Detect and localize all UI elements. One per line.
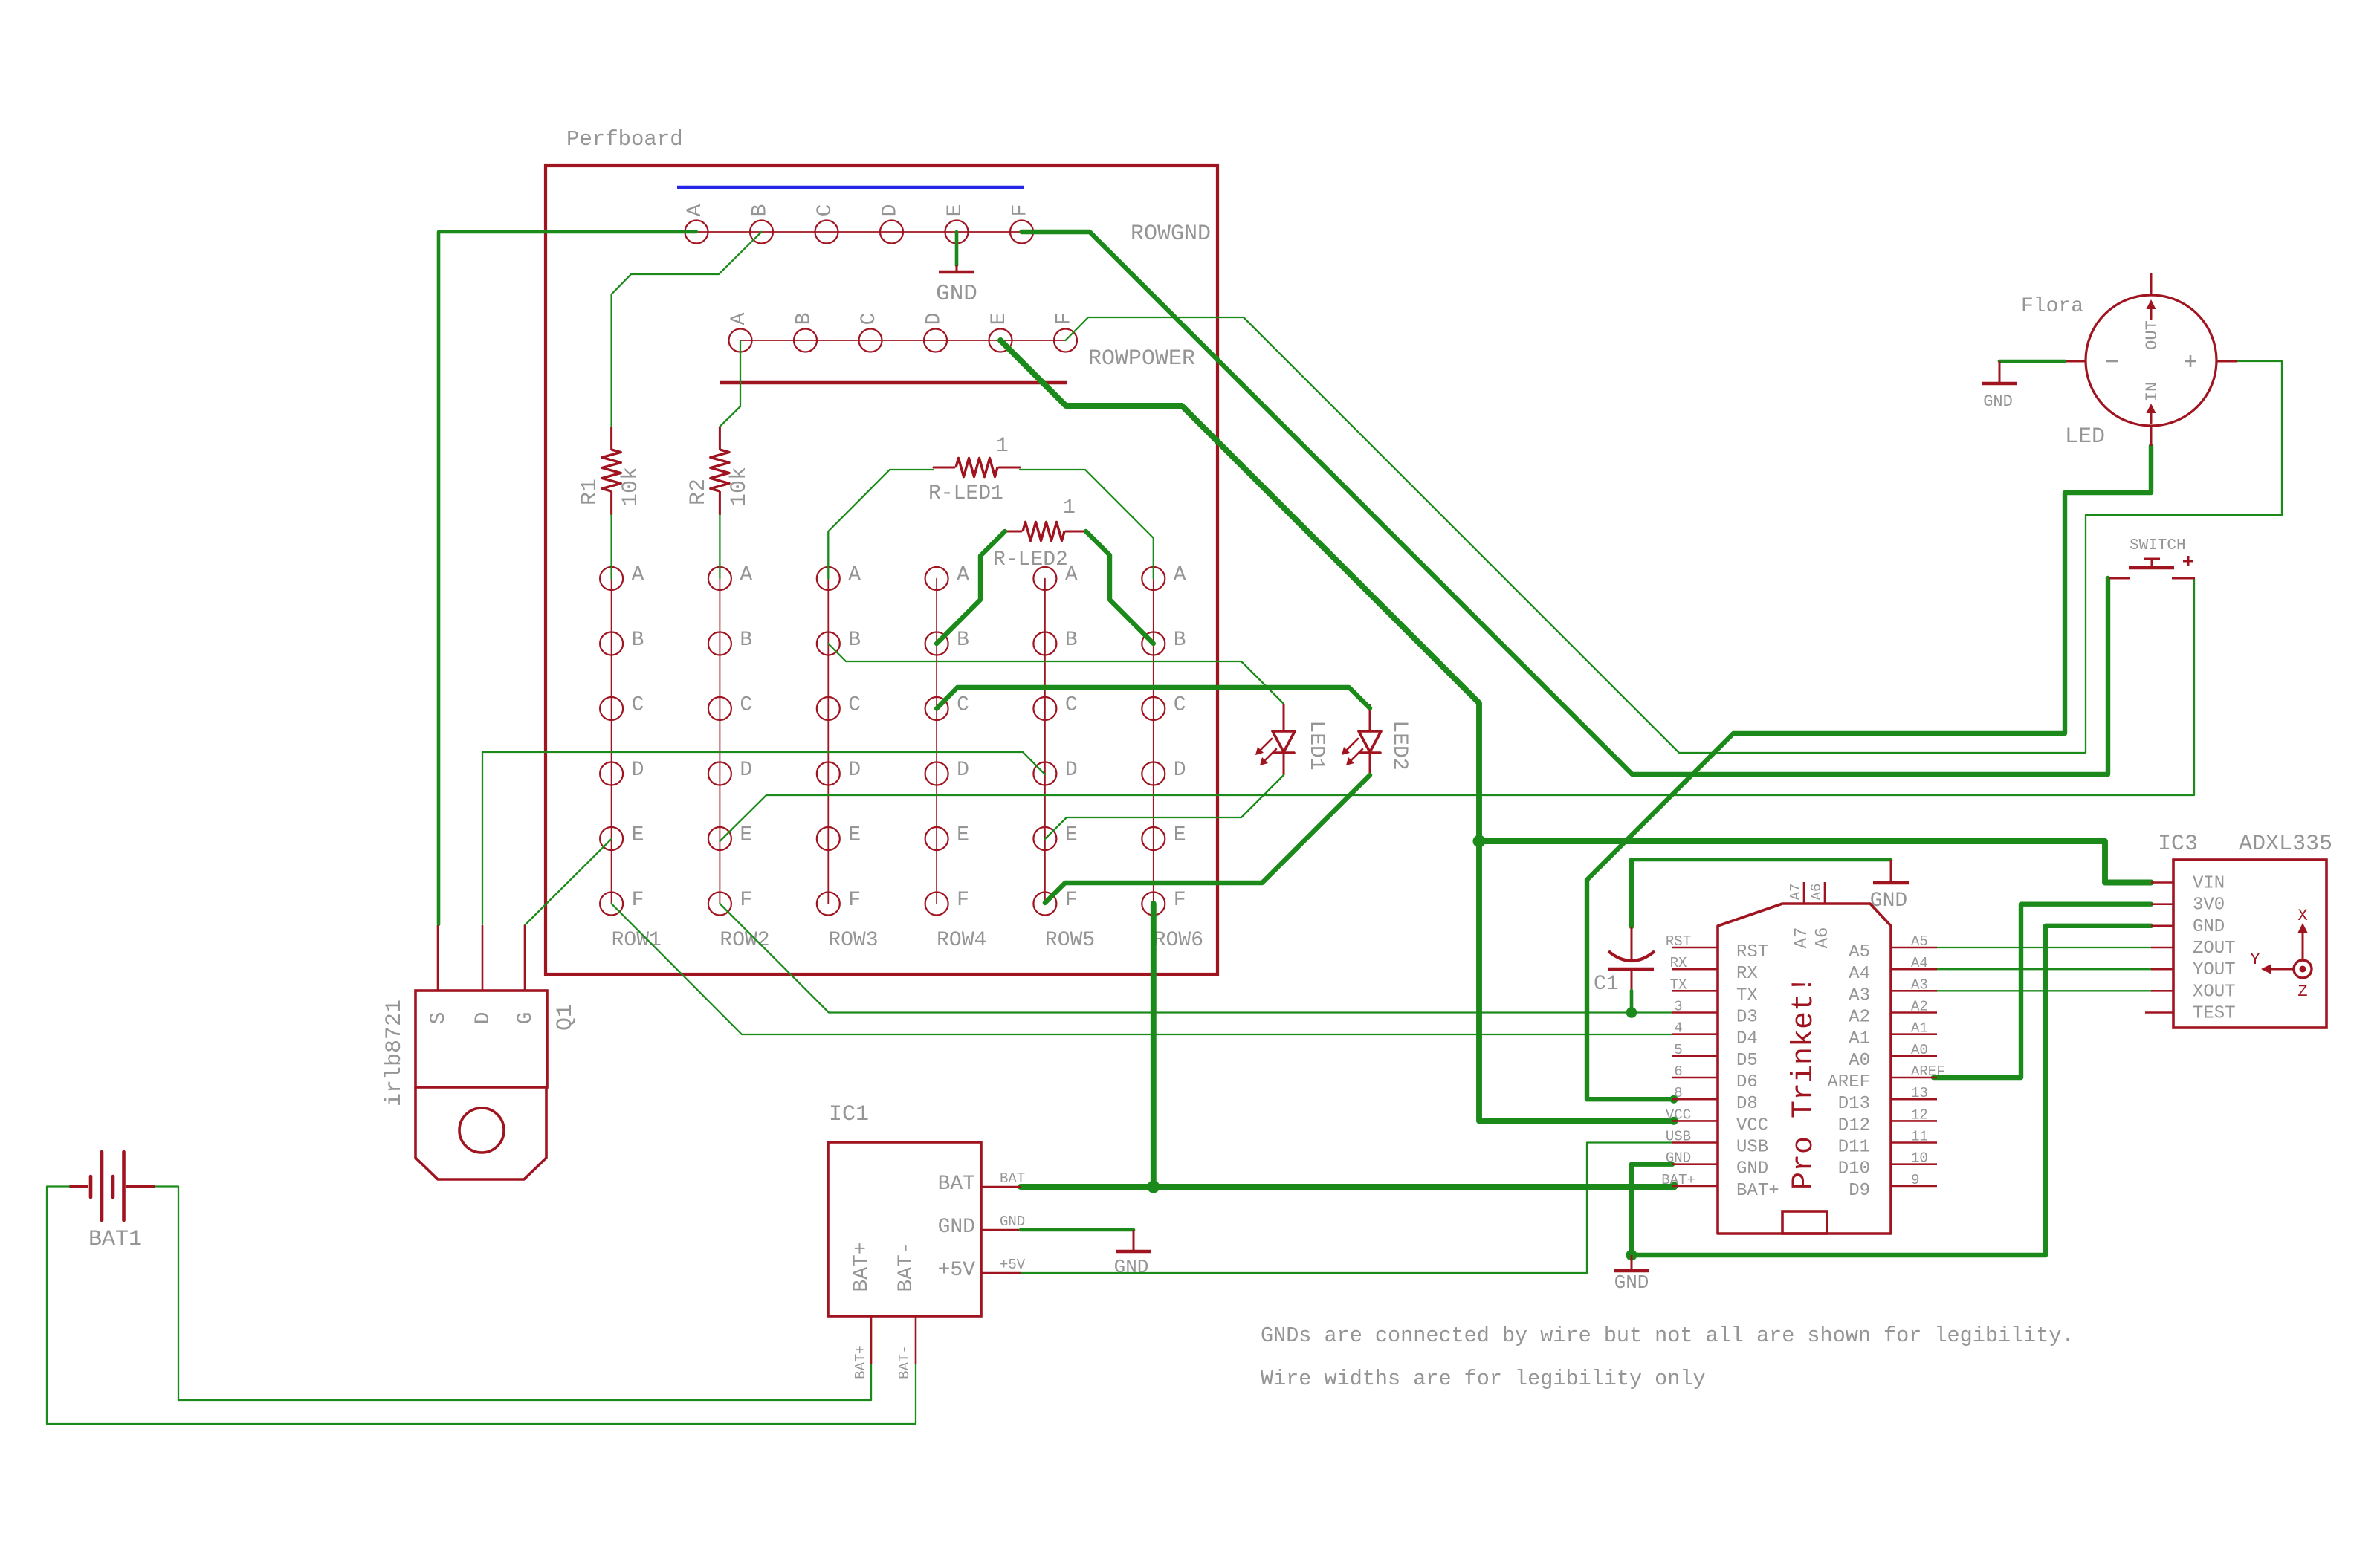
svg-text:R-LED1: R-LED1 — [928, 482, 1003, 505]
svg-text:11: 11 — [1911, 1129, 1928, 1145]
svg-text:Flora: Flora — [2021, 295, 2083, 318]
wire net Flora IN to Pro Trinket D8 — [1587, 446, 2151, 1099]
svg-text:A2: A2 — [1849, 1008, 1870, 1028]
svg-text:D5: D5 — [1736, 1051, 1758, 1071]
svg-text:A4: A4 — [1911, 955, 1928, 971]
connector ROWGND — [684, 204, 1211, 247]
svg-text:GND: GND — [1736, 1159, 1768, 1179]
svg-text:D: D — [740, 759, 752, 782]
switch SWITCH — [2109, 537, 2195, 578]
svg-text:6: 6 — [1674, 1063, 1682, 1080]
svg-text:B: B — [848, 629, 861, 652]
svg-text:Pro Trinket!: Pro Trinket! — [1788, 976, 1821, 1190]
svg-text:E: E — [944, 204, 967, 217]
svg-text:10: 10 — [1911, 1150, 1928, 1167]
svg-text:F: F — [848, 889, 861, 912]
wire ADXL335 GND to ground junction — [1632, 926, 2151, 1255]
resistor R2 10k — [686, 427, 752, 515]
svg-text:10k: 10k — [618, 467, 644, 507]
svg-text:Y: Y — [2250, 950, 2260, 969]
wire LED1 cathode to ROW5 pad E — [1045, 775, 1284, 839]
svg-text:ROW5: ROW5 — [1045, 929, 1095, 952]
svg-text:A: A — [740, 564, 752, 587]
junction dots at Pro Trinket left pins D8/VCC/BAT+ — [1670, 1095, 1678, 1190]
svg-text:A: A — [684, 204, 707, 216]
svg-text:BAT+: BAT+ — [1736, 1181, 1779, 1201]
wire ROWPOWER pad A to R2 to ROW2 pad A — [720, 340, 740, 579]
svg-text:F: F — [1065, 889, 1078, 912]
svg-text:1: 1 — [1063, 496, 1076, 519]
svg-text:IN: IN — [2143, 382, 2161, 401]
svg-text:ROW4: ROW4 — [937, 929, 986, 952]
battery BAT1 — [69, 1152, 155, 1252]
svg-text:VCC: VCC — [1666, 1107, 1691, 1123]
svg-text:IC1: IC1 — [829, 1102, 869, 1127]
wire R-LED1 right to ROW6 pad A — [1020, 470, 1154, 579]
wire LED2 cathode to ROW5 pad F — [1045, 775, 1370, 903]
svg-text:AREF: AREF — [1911, 1063, 1945, 1080]
svg-text:BAT: BAT — [1000, 1170, 1025, 1187]
svg-text:LED: LED — [2065, 424, 2105, 450]
svg-text:A: A — [1174, 564, 1186, 587]
wire Pro Trinket AREF to ADXL335 3V0 — [1933, 904, 2151, 1078]
svg-text:ROW6: ROW6 — [1154, 929, 1203, 952]
svg-text:ROWPOWER: ROWPOWER — [1088, 346, 1195, 372]
svg-text:ROW1: ROW1 — [612, 929, 662, 952]
wire ROW4 pad B to R-LED2 left — [937, 531, 1005, 644]
ground symbol above Pro Trinket — [1870, 860, 1909, 913]
svg-text:RST: RST — [1666, 933, 1691, 950]
svg-text:A4: A4 — [1849, 964, 1870, 984]
svg-text:3V0: 3V0 — [2193, 895, 2225, 916]
wire net ROWPOWER to Pro Trinket VCC — [1000, 340, 1672, 1121]
svg-text:TEST: TEST — [2193, 1004, 2236, 1024]
svg-text:C: C — [858, 313, 881, 325]
svg-text:GND: GND — [1000, 1214, 1025, 1230]
ground symbol below Pro Trinket — [1614, 1255, 1649, 1294]
svg-text:B: B — [632, 629, 644, 652]
svg-text:8: 8 — [1674, 1085, 1682, 1101]
connector ROW4 — [925, 564, 987, 953]
wire IC1 +5V to Pro Trinket USB — [1021, 1143, 1672, 1274]
svg-text:GND: GND — [2193, 917, 2225, 937]
svg-text:SWITCH: SWITCH — [2130, 537, 2186, 554]
svg-text:F: F — [1009, 204, 1032, 217]
svg-text:G: G — [514, 1012, 537, 1025]
svg-text:C: C — [1174, 694, 1186, 717]
svg-text:ROW2: ROW2 — [720, 929, 769, 952]
resistor R-LED2 value 1 — [993, 496, 1086, 571]
wire Pro Trinket A4 to ADXL335 YOUT — [1937, 968, 2151, 970]
svg-text:F: F — [740, 889, 752, 912]
svg-text:A5: A5 — [1849, 942, 1870, 962]
svg-text:LED2: LED2 — [1388, 720, 1411, 770]
svg-text:F: F — [1174, 889, 1186, 912]
svg-text:5: 5 — [1674, 1042, 1682, 1058]
svg-text:A2: A2 — [1911, 999, 1928, 1015]
svg-text:VCC: VCC — [1736, 1115, 1768, 1136]
svg-text:D6: D6 — [1736, 1072, 1758, 1092]
svg-text:ROWGND: ROWGND — [1131, 221, 1211, 247]
svg-text:OUT: OUT — [2143, 320, 2161, 350]
ground symbol at ROWGND pad E — [936, 232, 977, 307]
svg-text:RX: RX — [1736, 964, 1758, 984]
svg-text:D: D — [879, 204, 902, 217]
svg-text:A7: A7 — [1788, 884, 1804, 901]
svg-text:A: A — [728, 312, 751, 325]
connector ROW3 — [817, 564, 879, 953]
svg-text:A3: A3 — [1911, 976, 1928, 993]
svg-text:A0: A0 — [1849, 1051, 1870, 1071]
svg-text:1: 1 — [996, 435, 1009, 458]
svg-text:A6: A6 — [1808, 884, 1825, 901]
wire net BAT rail IC1 BAT to Pro Trinket BAT+ — [1021, 1184, 1672, 1190]
junction node BAT rail / ROW6F — [1147, 1181, 1160, 1193]
svg-text:TX: TX — [1670, 976, 1687, 993]
svg-text:GNDs are connected by wire but: GNDs are connected by wire but not all a… — [1261, 1324, 2075, 1348]
svg-text:D: D — [923, 313, 946, 325]
wire C1 top to GND symbol near A7/A6 — [1632, 860, 1891, 927]
svg-text:E: E — [1174, 824, 1186, 847]
svg-text:3: 3 — [1674, 999, 1682, 1015]
svg-text:D11: D11 — [1838, 1138, 1870, 1158]
wire ROW3 pad A to R-LED1 left — [828, 470, 934, 579]
svg-text:S: S — [427, 1012, 450, 1025]
wire Q1 gate to ROW1 pad E — [525, 839, 612, 925]
svg-text:B: B — [1174, 629, 1186, 652]
Flora LED module — [2021, 273, 2237, 450]
perfboard module frame — [546, 127, 1218, 974]
svg-text:BAT1: BAT1 — [88, 1227, 142, 1252]
svg-text:GND: GND — [936, 281, 977, 307]
transistor Q1 irlb8721 — [382, 925, 578, 1179]
connector ROW1 — [600, 564, 662, 953]
resistor R1 10k — [578, 427, 644, 515]
wire net VCC to ADXL335 VIN — [1479, 841, 2151, 883]
svg-text:ADXL335: ADXL335 — [2239, 832, 2332, 857]
svg-text:C: C — [740, 694, 752, 717]
note text — [1261, 1324, 2075, 1391]
svg-text:USB: USB — [1666, 1129, 1691, 1145]
svg-text:10k: 10k — [727, 467, 752, 507]
wire Pro Trinket A5 to ADXL335 ZOUT — [1937, 947, 2151, 948]
svg-text:BAT+: BAT+ — [850, 1242, 873, 1292]
svg-text:A7: A7 — [1792, 927, 1812, 949]
wire ROW6 pad F to BAT rail — [1151, 904, 1157, 1187]
svg-text:Wire widths are for legibility: Wire widths are for legibility only — [1261, 1367, 1706, 1391]
bus line (blue) — [677, 186, 1024, 189]
svg-text:AREF: AREF — [1827, 1072, 1870, 1092]
svg-text:XOUT: XOUT — [2193, 982, 2236, 1002]
svg-text:RX: RX — [1670, 955, 1687, 971]
svg-text:Perfboard: Perfboard — [566, 127, 683, 152]
svg-text:GND: GND — [1614, 1271, 1649, 1294]
svg-text:ZOUT: ZOUT — [2193, 939, 2236, 959]
svg-text:A1: A1 — [1911, 1020, 1928, 1037]
svg-text:D10: D10 — [1838, 1159, 1870, 1179]
svg-text:GND: GND — [938, 1216, 975, 1239]
svg-text:13: 13 — [1911, 1085, 1928, 1101]
svg-text:C1: C1 — [1594, 973, 1619, 996]
wire ROW1 pad F to Pro Trinket D4 — [612, 904, 1672, 1034]
svg-text:9: 9 — [1911, 1172, 1919, 1188]
junction node GND near Pro Trinket — [1626, 1250, 1637, 1261]
svg-text:4: 4 — [1674, 1020, 1682, 1037]
wire ROW2 pad F to Pro Trinket D3 — [720, 904, 1672, 1013]
svg-text:RST: RST — [1736, 942, 1768, 962]
wire R-LED2 right to ROW6 pad B — [1086, 531, 1154, 644]
connector ROW2 — [708, 564, 770, 953]
resistor R-LED1 value 1 — [928, 435, 1020, 505]
LED LED1 — [1255, 704, 1328, 775]
svg-text:F: F — [957, 889, 969, 912]
svg-text:D3: D3 — [1736, 1008, 1758, 1028]
wire ROW3 pad B to LED1 anode — [828, 644, 1284, 704]
IC IC1 power converter — [828, 1102, 1026, 1379]
wire BAT1 minus to IC1 BAT- — [47, 1187, 916, 1425]
svg-text:X: X — [2297, 907, 2307, 925]
axis indicator of ADXL335 — [2250, 907, 2312, 1001]
svg-text:C: C — [957, 694, 969, 717]
svg-text:B: B — [1065, 629, 1078, 652]
svg-text:F: F — [632, 889, 644, 912]
ground symbol at Flora — [1982, 361, 2017, 411]
wire Q1 drain to ROW5 pad D — [482, 752, 1045, 924]
wire ROWGND pad A to Q1 source — [439, 232, 696, 924]
svg-text:B: B — [793, 313, 816, 325]
svg-text:Q1: Q1 — [553, 1004, 578, 1031]
svg-text:GND: GND — [1666, 1150, 1691, 1167]
svg-text:D8: D8 — [1736, 1094, 1758, 1114]
wire net switch right contact to ROW2 pad E — [720, 578, 2194, 841]
svg-text:D12: D12 — [1838, 1115, 1870, 1136]
svg-text:D: D — [957, 759, 969, 782]
wire net ROWPOWER-F to Flora plus — [1066, 317, 2283, 753]
svg-text:LED1: LED1 — [1304, 720, 1328, 770]
svg-text:A3: A3 — [1849, 985, 1870, 1005]
wire Pro Trinket A3 to ADXL335 XOUT — [1937, 990, 2151, 991]
svg-text:D13: D13 — [1838, 1094, 1870, 1114]
LED LED2 — [1342, 704, 1411, 775]
wire ROW4 pad C to LED2 anode — [937, 687, 1370, 709]
svg-text:C: C — [814, 204, 837, 217]
svg-text:B: B — [957, 629, 969, 652]
svg-text:B: B — [749, 204, 772, 217]
junction node VCC/VIN — [1473, 835, 1486, 848]
svg-text:BAT-: BAT- — [895, 1242, 918, 1292]
svg-text:12: 12 — [1911, 1107, 1928, 1123]
svg-text:E: E — [632, 824, 644, 847]
svg-text:A: A — [848, 564, 861, 587]
bus line (dark red) — [720, 381, 1067, 385]
svg-text:GND: GND — [1114, 1256, 1149, 1278]
svg-text:C: C — [1065, 694, 1078, 717]
svg-text:A1: A1 — [1849, 1029, 1870, 1049]
svg-text:R2: R2 — [686, 479, 711, 505]
svg-text:A0: A0 — [1911, 1042, 1928, 1058]
svg-text:Z: Z — [2297, 982, 2307, 1001]
svg-text:BAT: BAT — [938, 1173, 975, 1196]
svg-text:R-LED2: R-LED2 — [993, 548, 1068, 571]
svg-text:ROW3: ROW3 — [828, 929, 878, 952]
svg-text:A: A — [957, 564, 969, 587]
wire Flora minus to ground — [1999, 360, 2065, 363]
svg-text:E: E — [957, 824, 969, 847]
wire IC1 GND to ground — [1021, 1228, 1134, 1232]
svg-text:BAT-: BAT- — [896, 1345, 913, 1379]
svg-text:A6: A6 — [1813, 927, 1833, 949]
svg-text:TX: TX — [1736, 985, 1758, 1005]
svg-text:USB: USB — [1736, 1138, 1768, 1158]
svg-text:C: C — [632, 694, 644, 717]
wire net ROWGND to switch left contact — [1022, 232, 2109, 774]
svg-text:D: D — [1174, 759, 1186, 782]
svg-text:BAT+: BAT+ — [853, 1345, 869, 1379]
svg-text:+5V: +5V — [1000, 1257, 1026, 1273]
svg-text:C: C — [848, 694, 861, 717]
svg-text:IC3: IC3 — [2158, 832, 2198, 857]
svg-text:D4: D4 — [1736, 1029, 1758, 1049]
svg-text:A5: A5 — [1911, 933, 1928, 950]
wire Pro Trinket GND to ground — [1632, 1164, 1672, 1255]
svg-text:E: E — [848, 824, 861, 847]
svg-text:D9: D9 — [1849, 1181, 1870, 1201]
wire C1 bottom to D3 net — [1630, 991, 1634, 1013]
svg-text:F: F — [1053, 313, 1076, 325]
junction node C1/D3 — [1626, 1007, 1637, 1018]
connector ROW5 — [1033, 564, 1095, 953]
connector ROW6 — [1142, 564, 1203, 953]
svg-text:D: D — [848, 759, 861, 782]
connector ROWPOWER — [728, 312, 1195, 372]
svg-text:irlb8721: irlb8721 — [382, 1000, 407, 1107]
wire ROWGND pad B to R1 to ROW1 pad A — [612, 232, 762, 579]
svg-text:D: D — [1065, 759, 1078, 782]
wire BAT1 plus to IC1 BAT+ — [155, 1187, 871, 1401]
svg-text:R1: R1 — [578, 479, 603, 505]
svg-text:BAT+: BAT+ — [1661, 1172, 1695, 1188]
ground symbol at IC1 — [1114, 1230, 1151, 1278]
svg-text:VIN: VIN — [2193, 874, 2225, 894]
capacitor C1 — [1594, 927, 1655, 996]
IC IC3 ADXL335 — [2145, 832, 2332, 1028]
svg-text:A: A — [632, 564, 644, 587]
svg-text:E: E — [1065, 824, 1078, 847]
svg-text:E: E — [988, 313, 1011, 325]
svg-text:D: D — [472, 1012, 495, 1025]
svg-text:+5V: +5V — [938, 1259, 976, 1282]
svg-text:D: D — [632, 759, 644, 782]
svg-text:YOUT: YOUT — [2193, 960, 2236, 980]
svg-text:B: B — [740, 629, 752, 652]
svg-text:E: E — [740, 824, 752, 847]
svg-text:GND: GND — [1983, 392, 2013, 411]
IC Pro Trinket — [1661, 882, 1944, 1234]
